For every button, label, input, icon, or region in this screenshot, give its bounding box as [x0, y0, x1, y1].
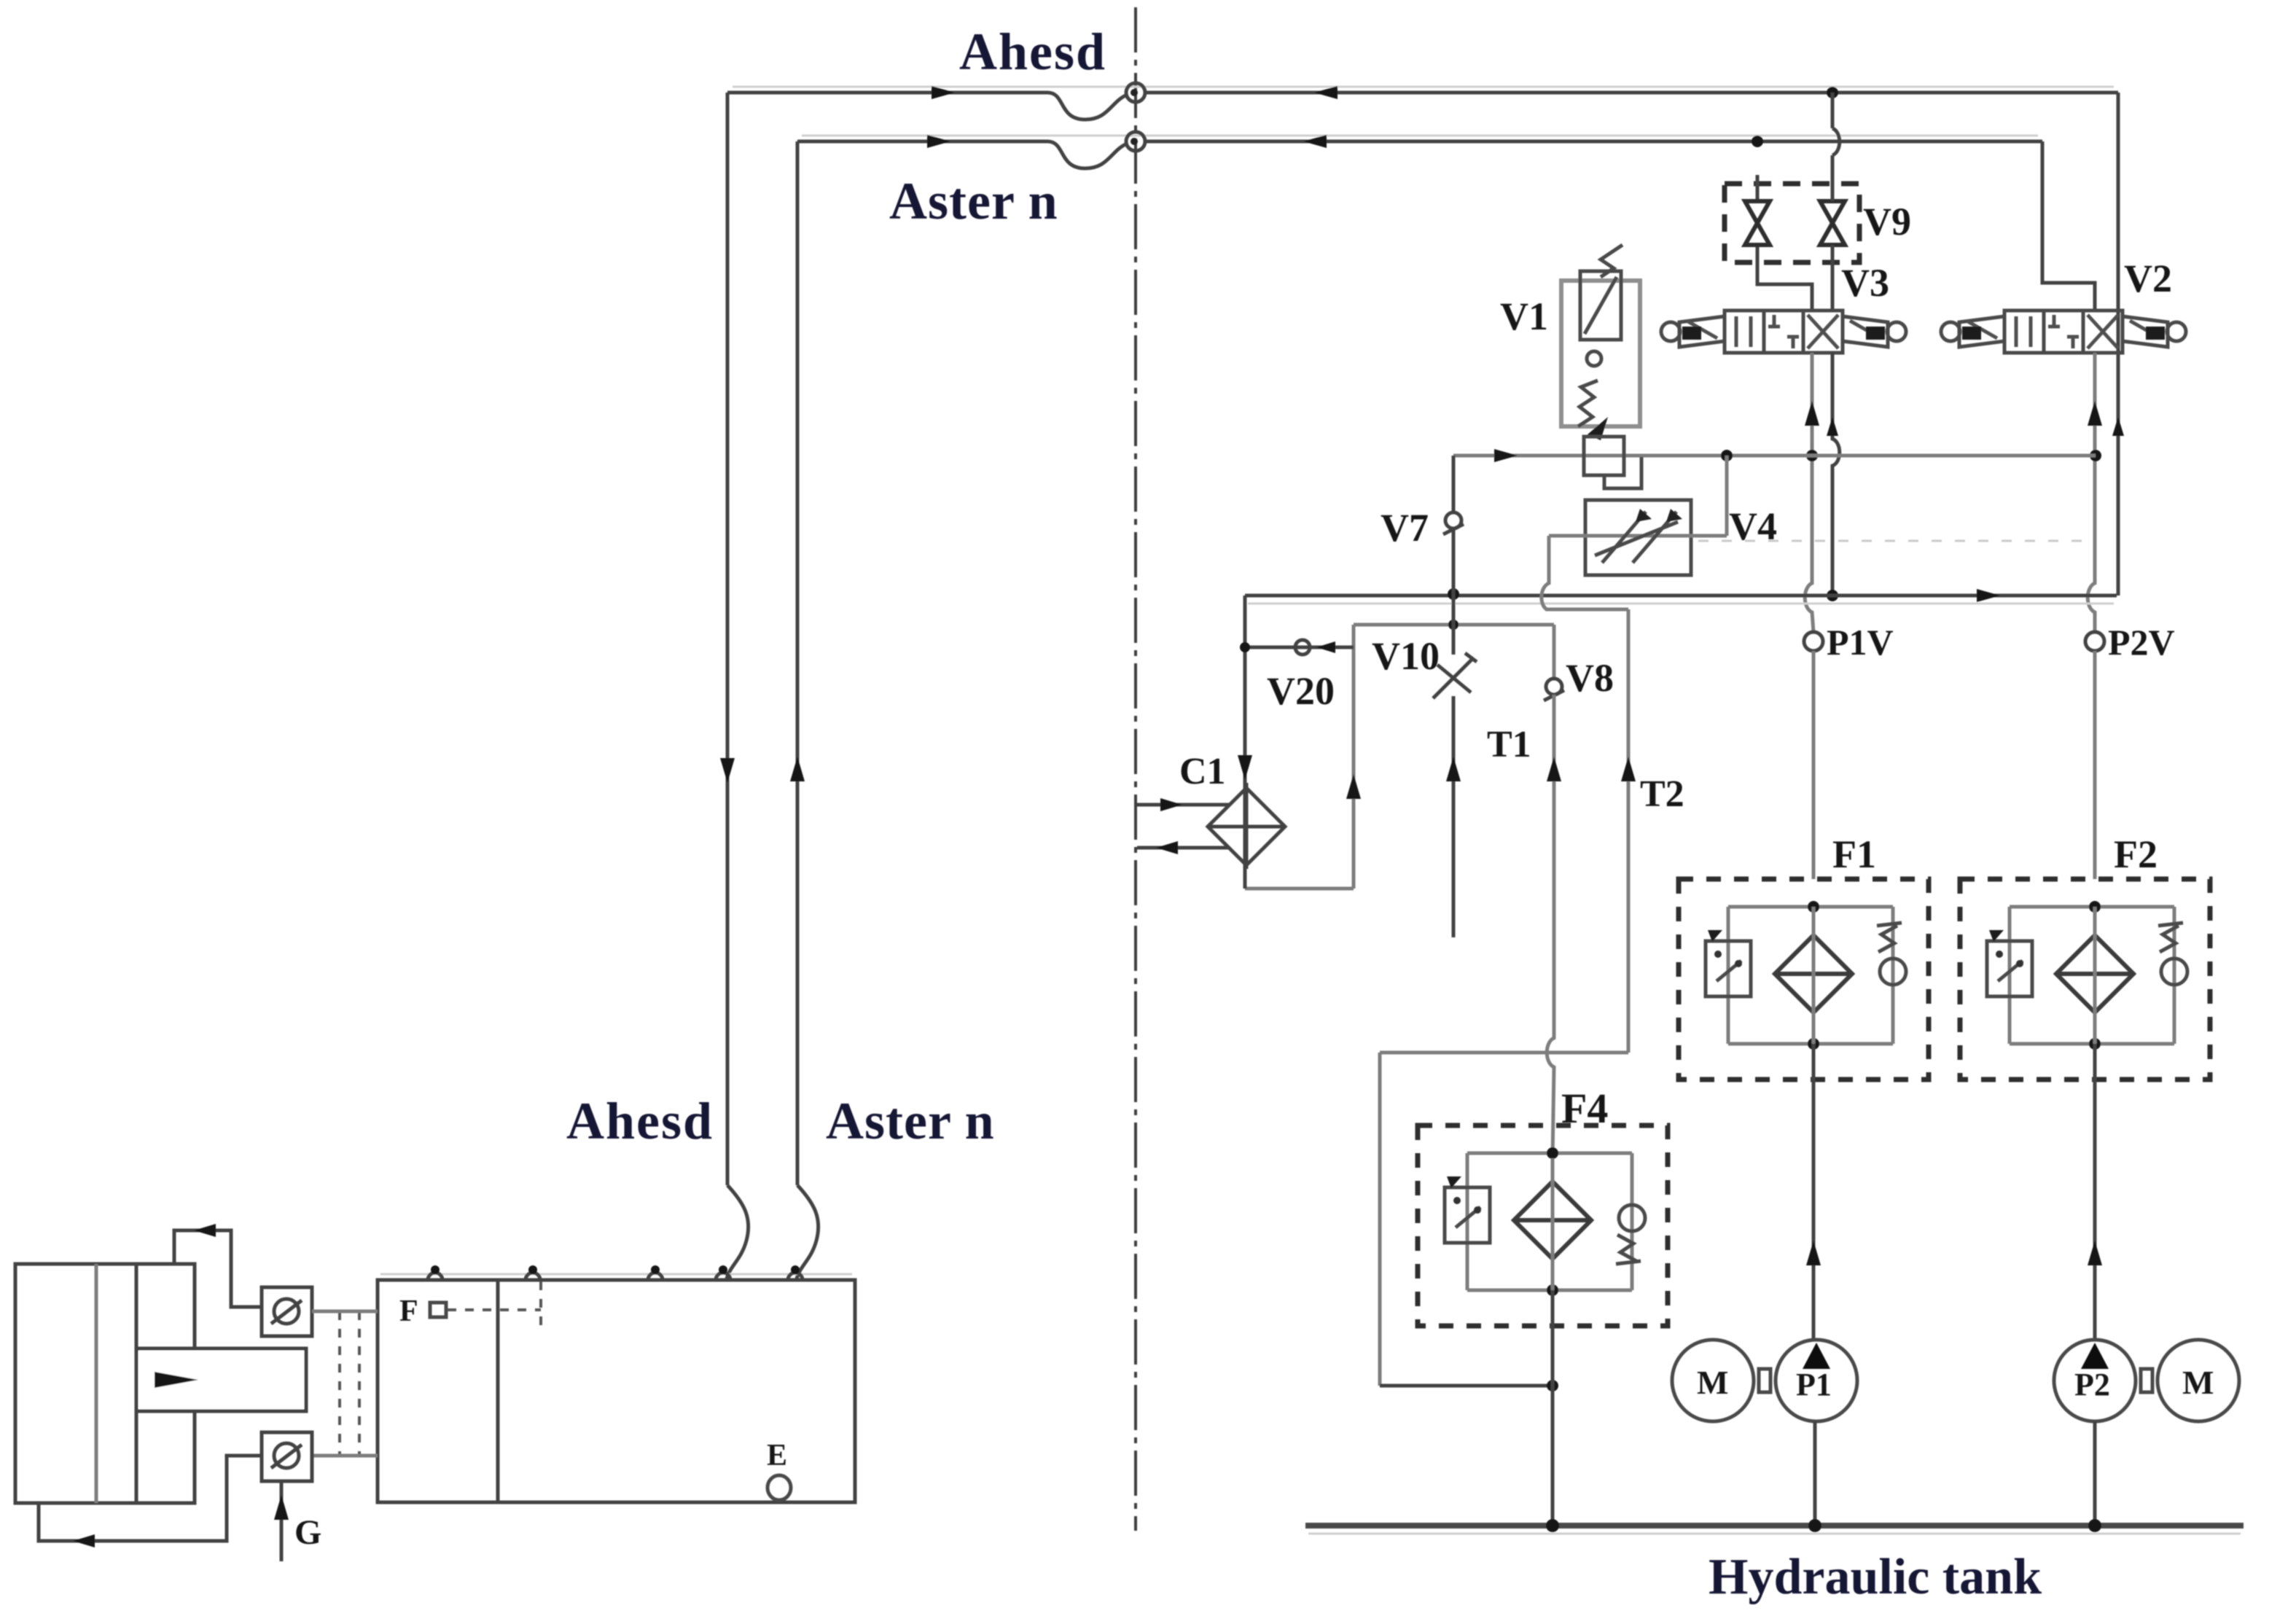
- wire Astern right corner down-jog to V2 top: [2042, 141, 2095, 311]
- junction V20 on cooler drop: [1240, 642, 1250, 652]
- junction T2/F4 outlet: [1547, 1380, 1558, 1391]
- arrow on return line: [1977, 589, 2000, 602]
- svg-text:V7: V7: [1381, 506, 1429, 550]
- label V4 leader dashes: [1698, 540, 2083, 542]
- wire bottom check to housing: [312, 1454, 378, 1458]
- arrow on cylinder top feed: [194, 1224, 216, 1237]
- svg-text:G: G: [294, 1513, 321, 1552]
- wire F1 outlet to pump P1: [1812, 1044, 1816, 1341]
- pilot gauge line across: [1453, 454, 2096, 458]
- valve V9 right globe symbol: [1820, 201, 1845, 245]
- motor M1 circle: [1672, 1340, 1754, 1421]
- wire V3 pressure port down to P1V: [1805, 353, 1813, 632]
- arrow on Ahead line right segment: [1314, 86, 1338, 99]
- wire V4 right lead up to pilot line: [1725, 456, 1729, 536]
- V9 dashed enclosure: [1725, 184, 1859, 262]
- valve V1 pilot drain loop: [1604, 457, 1641, 488]
- svg-text:T1: T1: [1487, 724, 1531, 765]
- valve V1 pilot square: [1584, 437, 1624, 475]
- svg-text:C1: C1: [1179, 751, 1226, 792]
- node P1V test point circle: [1804, 632, 1823, 651]
- junction return line and V7 branch: [1448, 588, 1459, 600]
- port dot 3: [651, 1265, 660, 1274]
- wire cooler drop vertical: [1243, 596, 1247, 889]
- wire G supply: [280, 1481, 284, 1561]
- return line light shadow: [1248, 603, 2114, 605]
- wire F4 outlet vertical: [1551, 1290, 1555, 1526]
- hose loop Astern at centerline: [1047, 141, 1127, 168]
- svg-text:M: M: [1697, 1364, 1728, 1401]
- ship centerline (dash-dot): [1134, 7, 1137, 1531]
- arrow down on cooler drop: [1238, 755, 1252, 780]
- hose Ahead to steering gear: [727, 1185, 749, 1279]
- pump P1 circle: [1776, 1340, 1857, 1421]
- svg-text:F1: F1: [1832, 832, 1876, 876]
- filter F2 assembly: [1960, 879, 2210, 1080]
- svg-text:P1V: P1V: [1827, 622, 1894, 663]
- port dot 2: [528, 1265, 537, 1274]
- wire V7 branch vertical lower: [1452, 529, 1456, 594]
- svg-text:Ahesd: Ahesd: [566, 1092, 714, 1150]
- svg-text:F2: F2: [2114, 832, 2158, 876]
- wire V3 tank port down: [1832, 353, 1840, 596]
- svg-text:Aster n: Aster n: [889, 172, 1058, 230]
- svg-text:T2: T2: [1640, 773, 1684, 815]
- valve V1 drain circle: [1587, 351, 1601, 366]
- node Ahead bulkhead coupling circle: [1126, 83, 1145, 102]
- wire Ahead top horizontal right segment: [1145, 91, 2118, 95]
- valve V10 throttle symbol: [1433, 653, 1477, 698]
- wire T2 lower horizontal: [1380, 1051, 1628, 1055]
- check valve bottom tick: [271, 1445, 302, 1468]
- svg-text:V10: V10: [1372, 634, 1440, 678]
- wire C1 sea outlet: [1137, 846, 1229, 850]
- wire Astern top light shadow: [802, 135, 2038, 137]
- valve V4 box: [1585, 500, 1691, 575]
- junction Ahead line to V9 right branch: [1827, 87, 1838, 98]
- junction V3 tank line on return line: [1827, 590, 1838, 601]
- valve V1 relief arrow: [1585, 277, 1617, 334]
- coupling M1-P1: [1759, 1369, 1770, 1392]
- arrow up on G supply: [274, 1495, 289, 1520]
- junction P2 line at tank: [2088, 1519, 2101, 1532]
- port dot 4: [719, 1265, 727, 1274]
- svg-text:P1: P1: [1796, 1367, 1832, 1402]
- svg-text:P2: P2: [2074, 1367, 2110, 1402]
- wire Astern top horizontal right segment: [1145, 140, 2042, 144]
- wire T1 branch upper: [1452, 594, 1456, 655]
- wire Astern left vertical down to hose: [796, 141, 800, 1185]
- valve V9 left globe symbol: [1757, 175, 1812, 311]
- check valve top square: [262, 1287, 312, 1336]
- piston rod: [138, 1351, 304, 1409]
- wire top check to housing: [312, 1310, 378, 1314]
- valve V7 check valve circle: [1445, 512, 1461, 528]
- tank line light shadow: [1308, 1533, 2241, 1535]
- arrow on pilot line: [1494, 449, 1518, 462]
- cylinder piston line dark: [135, 1264, 138, 1503]
- wire T2 upper horizontal: [1545, 608, 1628, 612]
- wire cylinder bottom return: [39, 1456, 262, 1541]
- junction pilot line V4 branch: [1721, 450, 1733, 461]
- svg-text:V8: V8: [1566, 656, 1614, 700]
- arrow on Ahead line left segment: [932, 86, 955, 99]
- coupling P2-M2: [2141, 1369, 2152, 1392]
- pump P2 circle: [2054, 1340, 2136, 1421]
- arrow up on V2 tank side line: [2112, 417, 2124, 436]
- arrow up on T1 branch: [1446, 757, 1461, 781]
- wire V8 branch upper: [1553, 625, 1556, 679]
- valve V1 lower arrowhead: [1588, 417, 1608, 440]
- wire cooler right riser: [1352, 625, 1356, 889]
- arrow on Astern left vertical: [790, 757, 805, 781]
- hose Astern to steering gear: [797, 1185, 819, 1279]
- pump P1 triangle: [1803, 1343, 1830, 1369]
- steering gear divider: [496, 1280, 500, 1502]
- port dot 1: [431, 1265, 440, 1274]
- F port square: [430, 1303, 446, 1317]
- arrow on C1 sea inlet: [1160, 798, 1182, 811]
- wire far right vertical (Ahead to V2 tank side): [2117, 93, 2120, 596]
- svg-text:V1: V1: [1500, 294, 1548, 338]
- svg-text:P2V: P2V: [2108, 622, 2175, 663]
- junction P1 line at tank: [1808, 1519, 1821, 1532]
- wire main return line to cooler: [1245, 594, 2117, 598]
- svg-text:V20: V20: [1267, 669, 1335, 713]
- svg-text:F: F: [399, 1295, 418, 1328]
- heat exchanger C1 cross: [1208, 783, 1285, 869]
- arrow on Astern line left segment: [927, 135, 950, 148]
- svg-text:Hydraulic tank: Hydraulic tank: [1709, 1549, 2042, 1605]
- svg-text:M: M: [2182, 1364, 2214, 1401]
- wire T2 vertical: [1627, 609, 1631, 1053]
- rod linkage dashed right: [358, 1311, 361, 1456]
- check valve top tick: [271, 1300, 302, 1324]
- wire F4 inner vertical: [1551, 1158, 1555, 1290]
- junction F4 outlet at tank: [1546, 1519, 1559, 1532]
- wire Ahead left vertical down to hose: [726, 93, 730, 1185]
- valve V8 seat tick: [1544, 690, 1564, 700]
- wire V4 left lead down with hop: [1542, 536, 1549, 609]
- valve V7 seat tick: [1443, 524, 1464, 534]
- check valve bottom square: [262, 1432, 312, 1481]
- valve V8 check circle: [1546, 679, 1562, 695]
- valve V1 lower spring: [1578, 380, 1598, 426]
- wire T2 drop vertical: [1378, 1053, 1382, 1386]
- hose loop Ahead at centerline: [1047, 93, 1127, 120]
- port bump 3: [648, 1273, 663, 1280]
- F port dashed leader: [448, 1308, 541, 1311]
- wire T2 to F4 outlet: [1380, 1384, 1553, 1388]
- svg-text:V4: V4: [1729, 504, 1777, 548]
- check valve top circle: [274, 1299, 299, 1324]
- arrow up on cooler right riser: [1346, 774, 1361, 799]
- valve V4 throttle arrows: [1595, 512, 1678, 563]
- wire F1 internal main: [1812, 907, 1816, 1044]
- junction tank header and T1 branch: [1448, 620, 1459, 630]
- node P2V test point circle: [2085, 632, 2104, 651]
- valve V4 flow line through: [1549, 534, 1727, 538]
- svg-text:F4: F4: [1561, 1085, 1608, 1132]
- arrow up pump P2 suction: [2088, 1241, 2102, 1265]
- svg-text:V2: V2: [2124, 257, 2172, 300]
- svg-text:E: E: [767, 1439, 787, 1472]
- E port oval: [768, 1475, 791, 1500]
- wire P1V down to filter F1: [1812, 651, 1816, 879]
- wire F2 internal main: [2093, 907, 2097, 1044]
- wire C1 sea inlet: [1137, 803, 1229, 807]
- cylinder body: [15, 1264, 195, 1503]
- rod linkage dashed left: [338, 1311, 341, 1456]
- junction Astern line to V9 left branch: [1752, 136, 1763, 147]
- svg-text:Ahesd: Ahesd: [959, 23, 1106, 81]
- junction V2 pressure line with pilot line end: [2090, 450, 2101, 461]
- arrow on C1 sea outlet: [1156, 841, 1178, 854]
- heat exchanger C1 diamond: [1208, 788, 1285, 865]
- arrow up on V3 tank port line: [1827, 417, 1838, 436]
- wire F2 outlet to pump P2: [2093, 1044, 2097, 1341]
- arrow on Astern line right segment: [1303, 135, 1327, 148]
- wire V2 pressure port down to P2V: [2088, 353, 2095, 632]
- filter F1 assembly: [1679, 879, 1929, 1080]
- wire cylinder top feed: [174, 1230, 262, 1307]
- valve V20 circle: [1295, 640, 1310, 655]
- wire V9 right branch upper: [1832, 93, 1840, 201]
- wire V20 bypass line: [1245, 646, 1354, 649]
- pump P2 triangle: [2081, 1343, 2109, 1369]
- F port dashed riser: [539, 1281, 542, 1330]
- wire pump P1 to tank: [1813, 1421, 1817, 1526]
- motor M2 circle: [2158, 1340, 2239, 1421]
- filter F4 assembly: [1418, 1125, 1668, 1326]
- valve V20 arrow: [1316, 641, 1335, 653]
- node Astern bulkhead coupling circle: [1126, 132, 1145, 151]
- wire Astern top horizontal left segment: [797, 140, 1047, 144]
- port bump 1: [428, 1273, 442, 1280]
- port bump 5: [788, 1273, 803, 1280]
- port bump 4: [716, 1273, 730, 1280]
- housing top light shadow: [380, 1273, 852, 1276]
- arrow inside rod: [155, 1372, 198, 1388]
- arrow on cylinder bottom return: [73, 1534, 95, 1547]
- junction V3 pressure line with pilot line: [1806, 450, 1818, 461]
- wire Ahead top horizontal left segment: [727, 91, 1047, 95]
- svg-text:Aster n: Aster n: [826, 1092, 995, 1150]
- port bump 2: [526, 1273, 540, 1280]
- valve V1 spring top: [1601, 245, 1623, 277]
- steering gear housing: [378, 1280, 855, 1502]
- arrow up pump P1 suction: [1806, 1241, 1821, 1265]
- valve V2 solenoid directional valve: [2004, 311, 2123, 353]
- wire V7 branch vertical upper: [1452, 456, 1456, 512]
- wire P2V down to filter F2: [2093, 651, 2097, 879]
- arrow up into V3 pressure port: [1805, 401, 1819, 426]
- valve V1 relief element: [1580, 271, 1621, 340]
- valve V3 solenoid directional valve: [1725, 311, 1843, 353]
- port dot 5: [791, 1265, 800, 1274]
- cylinder piston line grey: [95, 1264, 98, 1503]
- arrow up on V8 branch: [1547, 757, 1561, 781]
- wire Ahead top light shadow: [733, 86, 2114, 88]
- hydraulic tank surface line: [1305, 1523, 2244, 1529]
- svg-text:V3: V3: [1841, 261, 1889, 305]
- check valve bottom circle: [274, 1443, 299, 1468]
- wire cooler bottom link: [1245, 887, 1354, 891]
- wire tank header horizontal: [1354, 623, 1554, 627]
- arrow up into V2 pressure port: [2088, 401, 2102, 426]
- wire V8 branch to F4 with hop: [1547, 695, 1554, 1158]
- svg-text:V9: V9: [1863, 200, 1911, 243]
- wire V9 right branch lower to V3: [1831, 245, 1835, 311]
- wire T1 branch lower: [1452, 696, 1456, 937]
- arrow on Ahead left vertical: [720, 758, 735, 783]
- wire pump P2 to tank: [2093, 1421, 2097, 1526]
- valve V1 outer envelope: [1561, 281, 1640, 426]
- arrow up on T2 vertical: [1621, 757, 1636, 781]
